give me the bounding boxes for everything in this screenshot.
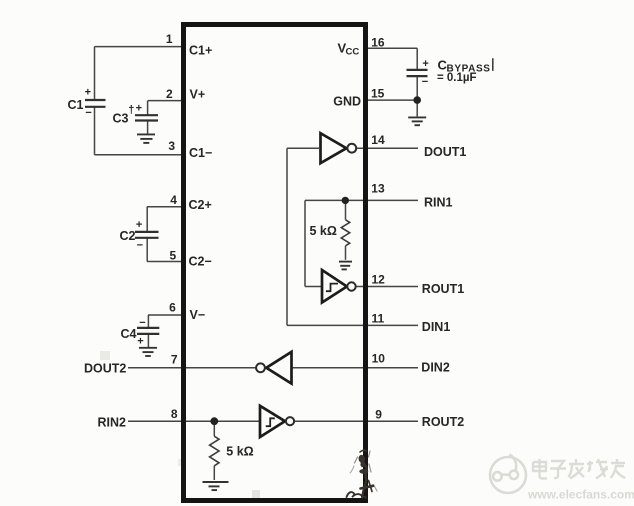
- svg-text:6: 6: [169, 301, 176, 315]
- svg-text:5 kΩ: 5 kΩ: [310, 224, 337, 238]
- svg-text:DOUT2: DOUT2: [84, 361, 126, 375]
- svg-text:DIN1: DIN1: [422, 320, 451, 334]
- svg-text:12: 12: [372, 272, 386, 286]
- svg-text:C1: C1: [68, 98, 84, 112]
- svg-text:13: 13: [371, 182, 385, 196]
- svg-text:5: 5: [170, 249, 177, 263]
- svg-text:RIN2: RIN2: [98, 415, 127, 429]
- svg-text:DOUT1: DOUT1: [424, 145, 466, 159]
- svg-text:9: 9: [375, 408, 382, 422]
- svg-text:4: 4: [170, 193, 177, 207]
- svg-text:V+: V+: [190, 88, 206, 102]
- svg-text:DIN2: DIN2: [421, 361, 450, 375]
- svg-text:ROUT2: ROUT2: [422, 415, 464, 429]
- svg-text:+: +: [422, 58, 428, 70]
- svg-text:11: 11: [372, 312, 385, 326]
- svg-text:−: −: [137, 239, 143, 251]
- svg-text:C2−: C2−: [189, 255, 212, 269]
- svg-text:C4: C4: [121, 327, 137, 341]
- svg-text:2: 2: [166, 87, 173, 101]
- svg-text:8: 8: [171, 407, 178, 421]
- svg-text:−: −: [139, 317, 145, 329]
- svg-text:C2: C2: [120, 229, 136, 243]
- svg-text:+: +: [85, 87, 91, 99]
- svg-text:+: +: [136, 102, 142, 114]
- svg-text:15: 15: [371, 87, 385, 101]
- svg-text:−: −: [422, 76, 428, 88]
- svg-text:7: 7: [171, 353, 178, 367]
- svg-text:www.elecfans.com: www.elecfans.com: [527, 488, 634, 502]
- svg-text:+: +: [136, 219, 142, 231]
- svg-text:14: 14: [371, 133, 385, 147]
- svg-text:†: †: [128, 104, 134, 116]
- svg-text:3: 3: [168, 139, 175, 153]
- svg-text:C1+: C1+: [189, 44, 212, 58]
- svg-text:CC: CC: [346, 46, 360, 57]
- svg-text:−: −: [85, 107, 91, 119]
- svg-text:GND: GND: [333, 94, 361, 108]
- svg-text:5 kΩ: 5 kΩ: [226, 445, 253, 459]
- svg-text:V−: V−: [190, 308, 206, 322]
- svg-text:C1−: C1−: [189, 146, 212, 160]
- svg-text:RIN1: RIN1: [424, 195, 453, 209]
- svg-text:1: 1: [166, 32, 173, 46]
- svg-text:+: +: [137, 336, 143, 348]
- svg-text:16: 16: [371, 35, 385, 49]
- svg-text:= 0.1µF: = 0.1µF: [437, 72, 477, 84]
- svg-text:10: 10: [372, 351, 386, 365]
- svg-text:C3: C3: [113, 112, 129, 126]
- svg-text:C2+: C2+: [189, 198, 212, 212]
- svg-text:ROUT1: ROUT1: [422, 282, 464, 296]
